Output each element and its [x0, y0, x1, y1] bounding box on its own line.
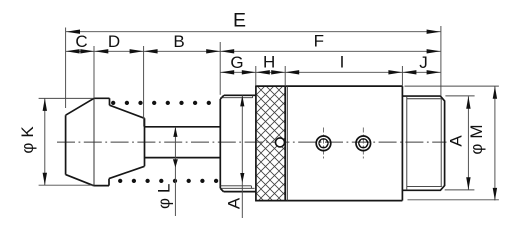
dimension line row C D B F — [66, 50, 441, 52]
svg-text:B: B — [173, 32, 184, 51]
set screw 2 centerline — [362, 128, 364, 160]
threaded end outline — [402, 96, 444, 190]
set screw 2 — [356, 136, 371, 151]
svg-text:H: H — [263, 53, 275, 72]
svg-text:E: E — [233, 10, 246, 32]
svg-text:J: J — [419, 53, 428, 72]
svg-text:F: F — [314, 32, 324, 51]
collet cone-cylinder junction line (C/D extension through part) — [93, 98, 95, 185]
svg-text:φL: φL — [155, 179, 174, 209]
svg-text:A: A — [225, 197, 244, 209]
dimension A left line — [241, 95, 243, 218]
collet head outline — [66, 98, 145, 185]
draw-bar shaft — [145, 127, 221, 158]
body left joint line — [286, 86, 288, 201]
set screw 1 centerline — [323, 128, 325, 160]
dimension line row G H I J — [220, 71, 440, 73]
dimension labels — [18, 10, 486, 210]
dimension phiL line — [174, 127, 176, 216]
dimension line E — [66, 31, 441, 33]
knurled ring side edges — [256, 86, 285, 201]
svg-text:φK: φK — [18, 121, 37, 153]
main horizontal centerline — [57, 141, 447, 143]
svg-text:C: C — [75, 32, 87, 51]
spring coil dots, bottom row — [118, 179, 218, 183]
svg-text:G: G — [230, 53, 243, 72]
svg-text:A: A — [447, 135, 466, 147]
dimension phiM extension and line — [405, 86, 499, 200]
clamping nut collar outline — [220, 95, 256, 191]
extension lines — [66, 26, 441, 127]
svg-text:D: D — [108, 32, 120, 51]
cylinder body outline — [255, 86, 402, 201]
collar thread detail lines — [220, 95, 254, 188]
dimension arrowheads — [43, 30, 498, 201]
svg-text:φM: φM — [467, 119, 486, 154]
knurled ring cross-hatch fill — [256, 86, 285, 201]
dimension A right extension and line — [445, 96, 475, 190]
set screw 1 — [316, 136, 331, 151]
thread minor-diameter and relief lines — [407, 96, 442, 190]
dimension phiK extension and line — [39, 98, 93, 185]
svg-text:I: I — [340, 53, 345, 72]
spring coil dots, top row — [111, 101, 211, 105]
oil hole circle on knurled ring — [276, 138, 285, 147]
